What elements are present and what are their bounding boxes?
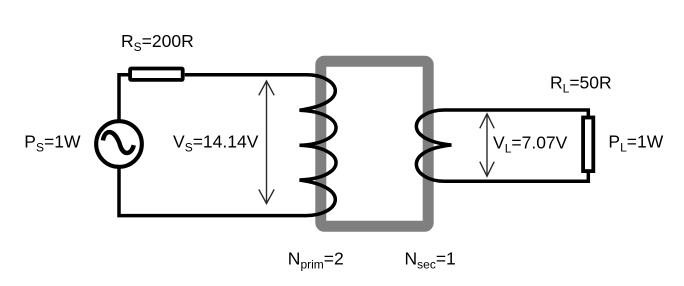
arrow VL (double-headed) <box>480 114 494 176</box>
AC source sine wave <box>103 132 134 153</box>
arrow VS (double-headed) <box>259 81 274 204</box>
transformer core <box>321 61 428 226</box>
svg-text:RL=50R: RL=50R <box>550 73 612 96</box>
resistor RS <box>130 69 183 80</box>
secondary winding L2 (2 loops) with wires to load RL <box>416 110 588 181</box>
AC source V1 circle <box>96 121 142 167</box>
svg-text:RS=200R: RS=200R <box>121 31 194 54</box>
svg-text:PL=1W: PL=1W <box>608 131 663 154</box>
resistor RL (load) <box>583 118 593 172</box>
svg-text:Nsec=1: Nsec=1 <box>405 249 456 272</box>
wire from source top to resistor RS <box>119 75 130 120</box>
svg-text:Nprim=2: Nprim=2 <box>288 249 344 272</box>
svg-text:VL=7.07V: VL=7.07V <box>493 133 568 156</box>
svg-text:PS=1W: PS=1W <box>24 132 81 155</box>
wire + primary winding L1 (4 loops) + bottom wire back to source <box>119 75 336 216</box>
svg-text:VS=14.14V: VS=14.14V <box>173 131 259 154</box>
